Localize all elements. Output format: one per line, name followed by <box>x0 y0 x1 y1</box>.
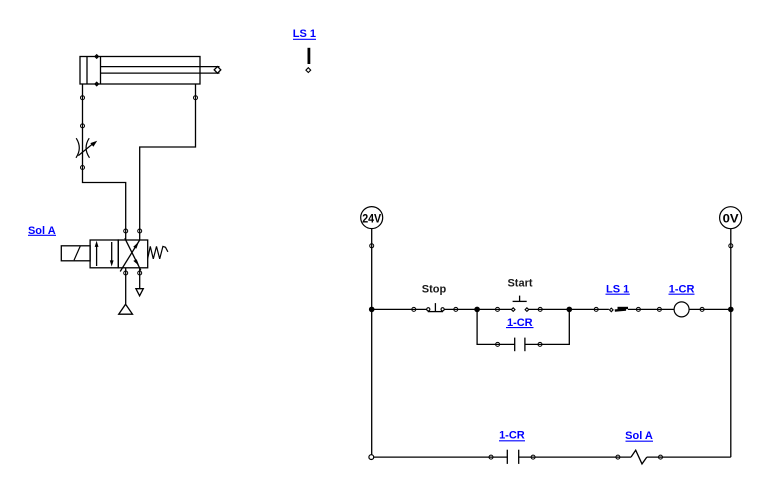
svg-text:24V: 24V <box>362 211 381 225</box>
valve bottom port node circles <box>124 271 128 275</box>
cylinder rod end diamond <box>214 67 221 74</box>
node circle on right wire <box>194 96 198 100</box>
1-CR holding contact bars (branch) <box>514 338 516 352</box>
limit switch LS1 marker diamond <box>306 68 311 73</box>
svg-text:1-CR: 1-CR <box>507 317 533 329</box>
return spring <box>148 246 168 259</box>
cylinder rod <box>101 66 220 68</box>
cylinder piston <box>100 57 102 85</box>
node circle on left wire 1 <box>81 96 85 100</box>
svg-text:Start: Start <box>507 277 532 289</box>
rung 2 wire <box>371 456 507 458</box>
rung2 1-CR contact bars <box>506 450 508 464</box>
node circle on left wire 2 <box>81 124 85 128</box>
valve right box cross arrow A <box>125 238 141 270</box>
Sol A solenoid zigzag <box>631 450 647 464</box>
left rail bottom corner circle <box>369 455 374 460</box>
cylinder bottom port diamond <box>95 82 98 85</box>
valve left box arrow up <box>96 246 98 267</box>
junction dot left branch <box>474 307 480 313</box>
exhaust line and triangle under valve <box>139 268 141 289</box>
LS1 NO contact blade <box>615 310 626 311</box>
1-CR relay coil <box>674 302 689 317</box>
junction dot right rail rung1 <box>728 307 734 313</box>
svg-text:0V: 0V <box>723 211 739 225</box>
limit switch LS1 position marker bar <box>307 48 310 64</box>
valve V1 body left position box <box>90 240 118 268</box>
supply line and triangle under valve <box>125 268 127 304</box>
cylinder top port diamond <box>95 55 98 58</box>
24V supply circle <box>361 207 383 229</box>
wire: cylinder cap end down to flow control and valve port 1 <box>83 84 126 240</box>
right rail connection circle <box>729 244 733 248</box>
valve top port node circles <box>124 229 128 233</box>
cylinder left cap line <box>86 57 88 85</box>
svg-text:LS 1: LS 1 <box>606 283 629 295</box>
solenoid diagonal <box>74 246 80 260</box>
junction dot left rail rung1 <box>369 307 375 313</box>
left rail connection circle <box>370 244 374 248</box>
Stop plunger <box>434 303 436 312</box>
rung2 connection circles <box>489 455 493 459</box>
Start NO pushbutton contacts <box>511 308 515 312</box>
cylinder body <box>80 57 200 85</box>
svg-text:Stop: Stop <box>422 283 447 295</box>
flow control adjustment arrow <box>78 144 92 156</box>
svg-text:LS 1: LS 1 <box>293 28 316 40</box>
node circle on left wire 3 <box>81 166 85 170</box>
Stop NC pushbutton contacts <box>427 308 430 311</box>
right rail <box>730 229 732 457</box>
svg-text:Sol A: Sol A <box>625 430 653 442</box>
valve left box arrow down <box>111 242 113 261</box>
flow control valve (throttle) arcs <box>76 138 79 158</box>
parallel branch for 1-CR holding contact <box>477 309 515 344</box>
svg-text:1-CR: 1-CR <box>669 283 695 295</box>
connection circles rung1 <box>412 307 416 311</box>
svg-text:1-CR: 1-CR <box>499 430 525 442</box>
left rail <box>371 229 373 458</box>
wire: cylinder rod end down to valve port 2 <box>140 84 196 240</box>
Stop NC bar <box>428 311 443 313</box>
LS1 NO contact diamond <box>610 308 614 312</box>
valve right box cross arrow B <box>120 240 140 272</box>
solenoid actuator box <box>61 246 90 261</box>
junction dot right branch <box>567 307 573 313</box>
0V supply circle <box>720 207 742 229</box>
branch connection circles <box>496 342 500 346</box>
Start plunger T <box>513 300 527 302</box>
valve V1 body right position box <box>118 240 147 268</box>
rung 1 wire <box>372 308 427 310</box>
